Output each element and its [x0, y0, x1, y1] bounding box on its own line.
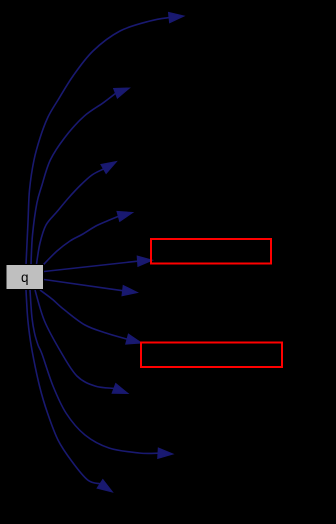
edge 4: arrowhead — [117, 211, 133, 221]
edge 8: arrowhead — [112, 384, 128, 394]
edge 9: wire from node q — [30, 290, 158, 453]
edge 6: wire from node q — [44, 280, 123, 291]
edge 7: arrowhead — [126, 334, 142, 344]
edge 9: arrowhead — [158, 448, 173, 458]
red node box 1 — [151, 239, 271, 264]
edge 10: wire from node q — [26, 290, 100, 484]
edge 5: arrowhead — [137, 256, 152, 266]
edge 1: arrowhead — [169, 12, 185, 22]
edge 2: arrowhead — [114, 88, 130, 98]
edge 10: arrowhead — [97, 480, 112, 493]
edge 7: wire from node q — [40, 290, 127, 339]
edge 3: wire from node q — [37, 169, 104, 264]
edge 8: wire from node q — [35, 290, 114, 388]
node q (grey filled box) — [6, 265, 44, 290]
edge 4: wire from node q — [44, 216, 119, 264]
edge 5: wire from node q — [44, 261, 138, 271]
edge 2: wire from node q — [31, 93, 116, 265]
edge 1: wire from node q — [26, 18, 169, 265]
svg-text:q: q — [21, 270, 29, 285]
edge 6: arrowhead — [122, 286, 138, 296]
red node box 2 — [141, 343, 282, 368]
edge 3: arrowhead — [101, 162, 117, 174]
